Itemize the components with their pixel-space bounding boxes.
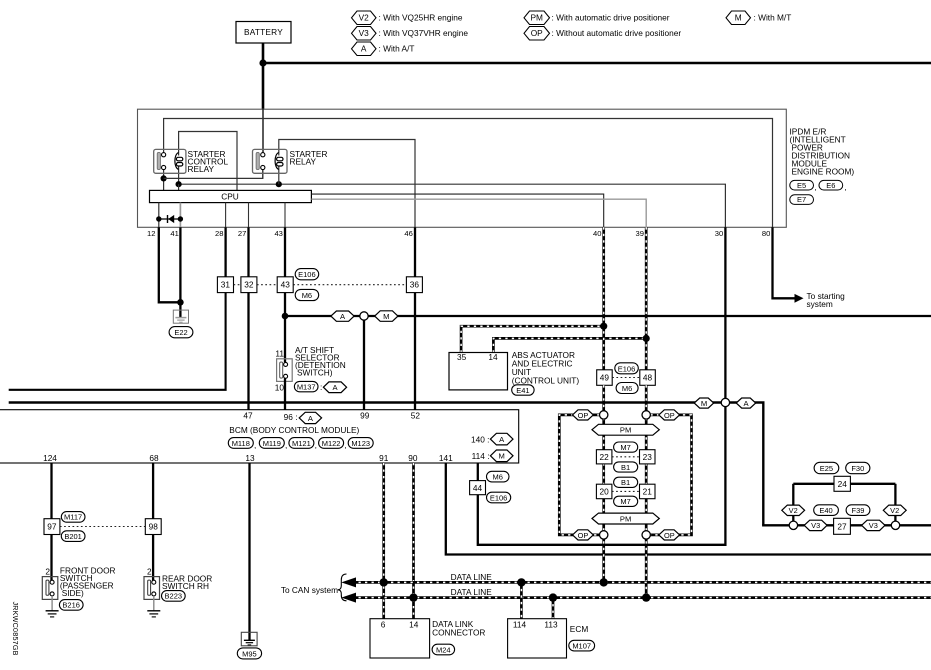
svg-text:49: 49 [600,373,610,383]
svg-text:BCM (BODY CONTROL MODULE): BCM (BODY CONTROL MODULE) [229,425,359,435]
wire pin 28 to left edge [9,293,226,390]
wire battery feed vertical [262,43,265,109]
connector E106 label top [295,269,319,280]
svg-text:PM: PM [620,426,631,435]
node option circle bus [721,398,729,406]
svg-text:99: 99 [360,411,370,421]
svg-text:V2: V2 [359,13,370,23]
ECM box [508,619,567,658]
node CAN1 x ECM114 [517,578,525,586]
hexagon A on row [331,311,354,321]
svg-text:M122: M122 [322,439,341,448]
svg-text:: With M/T: : With M/T [754,12,792,22]
node option circle bottom left [600,531,608,539]
wire pin 80 to starting system [773,227,796,298]
node dashed junction pin40 [600,323,607,330]
svg-text:39: 39 [636,229,644,238]
rear door switch [144,577,160,600]
arrow CAN line 2 [341,593,356,603]
dotted connector link 49-48 [612,377,640,379]
connector F30 label [846,462,870,473]
wire battery bus to right edge [263,62,931,65]
wire ECM pin 114 dashed [520,582,523,618]
svg-text:,: , [814,182,816,192]
svg-text:124: 124 [43,453,57,463]
wire battery feed inside IPDM to starter relay [262,109,264,153]
svg-text:V2: V2 [890,506,899,515]
wire front door switch to ground [51,596,53,611]
label starter control relay [188,149,229,174]
connector box 44 [470,481,486,495]
svg-text:M: M [735,13,742,23]
wire starter control relay coil to CPU [179,132,237,191]
svg-text:A: A [361,44,367,54]
connector M24 [432,644,455,655]
wire pin 39 dashed down [645,227,648,369]
svg-text:90: 90 [408,453,418,463]
legend hexagon PM [524,11,550,25]
BCM box [0,410,519,463]
svg-text:91: 91 [379,453,389,463]
wire contact bottoms link [164,170,263,179]
hexagon V3 right [862,520,885,530]
wire CPU to pin 40 [311,194,603,227]
svg-text:31: 31 [221,280,231,290]
dotted connector link 31-32-43-36 [234,284,407,286]
wire A-M junction down to A/T switch [284,316,286,362]
wire connector 97 to front door switch [50,535,52,582]
svg-text::: : [320,382,322,392]
svg-text:68: 68 [149,453,159,463]
svg-text:M107: M107 [572,641,591,650]
dotted connector link 22-23 [612,456,640,458]
label data link connector [432,619,485,638]
wire option circle to BCM pin 99 [363,320,365,410]
hexagon A at pin 96 [299,412,321,423]
wire ABS pin 35 dashed [461,326,604,352]
hexagon V2 right [883,505,906,515]
label rear door switch [162,573,212,591]
svg-text:32: 32 [244,280,254,290]
node contact bottom junction [161,175,167,181]
connector box 97 [44,519,60,535]
svg-text:RELAY: RELAY [188,164,215,174]
wire BCM pin 114 to connector 44 [477,463,479,481]
hexagon A on bus [736,398,756,408]
legend hexagon V2 [352,11,377,25]
svg-text:SWITCH RH: SWITCH RH [162,581,209,591]
connector M117 label [61,512,85,523]
connector B216 [59,600,83,611]
svg-text:V3: V3 [811,521,820,530]
svg-text:27: 27 [837,521,847,531]
svg-text:22: 22 [599,452,609,462]
svg-text:F39: F39 [852,506,865,515]
A/T shift selector detention switch [277,359,293,382]
svg-text:B1: B1 [621,478,630,487]
connector box 22 [596,450,612,464]
connector box 31 [217,277,233,293]
svg-text:: With A/T: : With A/T [379,43,415,53]
svg-text:23: 23 [643,452,653,462]
node CAN1 x OP column [600,578,608,586]
svg-text:V2: V2 [789,506,798,515]
relay K2 starter relay [253,149,288,173]
svg-text:,: , [344,440,346,450]
battery [236,22,291,44]
node battery junction [259,59,266,66]
svg-text:E6: E6 [826,181,835,190]
node coil bottom junction control relay [176,181,182,187]
svg-text:M6: M6 [302,291,312,300]
label ABS actuator [512,350,580,386]
connector box 20 [596,484,612,499]
svg-text:140 :: 140 : [471,434,489,444]
wire connector 43 to A-M row [284,293,286,316]
node ground junction [177,299,184,306]
wire starter relay contact bottom link [262,170,264,179]
node CAN2 x ECM113 [549,593,557,601]
hexagon A after M137 [323,382,346,393]
svg-text:11: 11 [275,349,284,359]
svg-text:B201: B201 [64,532,82,541]
svg-text:M: M [701,399,707,408]
svg-text:E106: E106 [490,493,508,502]
wire BCM pin 124 to connector 97 [50,463,52,519]
wire BCM pin 141 to right edge [446,463,931,555]
svg-text:OP: OP [531,28,543,38]
OP dashed bypass left [559,415,599,535]
OP dashed bypass right [650,415,691,535]
svg-text:12: 12 [147,229,155,238]
legend hexagon V3 [352,27,377,41]
svg-text:SWITCH): SWITCH) [297,368,333,378]
wire starter control relay contact bottom to CPU [163,170,165,191]
node CAN2 x OP column [642,593,650,601]
connector M118 [228,438,253,449]
wire BCM pin 13 to ground M95 [248,463,250,640]
node CAN1 x pin91 [380,578,388,586]
arrow CAN line 1 [341,577,356,587]
svg-text:2: 2 [45,567,50,577]
svg-text:CPU: CPU [221,192,239,202]
svg-text:F30: F30 [851,464,864,473]
svg-text:20: 20 [599,487,609,497]
svg-text:40: 40 [593,229,601,238]
svg-text:V3: V3 [869,521,878,530]
connector M7 label bottom [614,496,638,506]
svg-text:27: 27 [238,229,246,238]
svg-text:DATA LINE: DATA LINE [451,572,493,582]
svg-text:M7: M7 [620,497,630,506]
connector E40 label [814,505,839,516]
svg-text:,: , [315,440,317,450]
svg-text:M117: M117 [64,513,82,522]
svg-text:M95: M95 [242,649,257,658]
wire pin 43 down to connector 43 [284,227,286,276]
connector M6 label bottom [295,289,319,300]
ground M95 symbol [241,632,257,646]
connector E7 [790,195,814,205]
svg-text:BATTERY: BATTERY [244,27,283,37]
ground rear door switch [147,611,160,617]
hexagon A at pin 140 [490,433,513,445]
connector E106 label for 44 [487,492,511,503]
svg-text:: With VQ25HR engine: : With VQ25HR engine [379,12,463,22]
wire pin 28 down to connector 31 [224,227,226,276]
svg-text:,: , [844,182,846,192]
svg-text:OP: OP [664,411,675,420]
svg-text:14: 14 [409,620,419,630]
wire pin 46 down to connector 36 [414,227,416,276]
connector box 32 [241,277,257,293]
svg-text:E106: E106 [618,364,636,373]
label starter relay [290,149,328,167]
wire V2 branch right vertical [894,484,896,521]
wire V2 branch top row [793,483,895,485]
svg-text:PM: PM [530,13,543,23]
wire CPU to pin 43 [284,203,286,228]
connector B1 label upper [614,462,638,472]
hexagon OP top left [573,410,594,420]
node dashed junction pin39 [643,335,650,342]
svg-text:RELAY: RELAY [290,157,317,167]
svg-text:24: 24 [838,479,848,489]
svg-text:10: 10 [275,382,285,392]
label A/T shift selector [295,345,346,378]
ABS actuator unit box [449,353,508,390]
svg-text:30: 30 [715,229,723,238]
hexagon OP bottom left [573,530,594,540]
svg-text:41: 41 [170,229,178,238]
wire CPU to pin 12 [158,203,160,228]
svg-text:(CONTROL UNIT): (CONTROL UNIT) [512,375,580,385]
svg-text:E41: E41 [516,386,529,395]
wire starter relay coil top to pin 46 [279,140,415,228]
wire starter relay coil bottom [278,165,280,184]
svg-text:113: 113 [544,620,558,630]
svg-text:E25: E25 [820,464,833,473]
connector box 24 [834,476,850,491]
wire BCM pin 91 dashed to data link connector [382,463,385,619]
connector M123 [348,438,373,449]
wire main bus row [9,401,765,403]
CPU box [150,190,312,202]
wire pin 40 dashed column middle [602,385,605,582]
connector M122 [319,438,344,449]
connector F39 label [846,505,870,516]
svg-text:6: 6 [381,620,386,630]
PM banner bottom [592,513,659,524]
svg-text:21: 21 [643,487,653,497]
svg-text:B223: B223 [165,592,183,601]
wire V2 V3 main row [762,524,931,526]
connector M95 [237,648,261,659]
svg-text:CONNECTOR: CONNECTOR [432,628,485,638]
svg-text:E5: E5 [797,181,806,190]
wire pin 40 dashed down [602,227,605,369]
hexagon OP bottom right [659,530,680,540]
connector M6 label for 44 [487,471,510,482]
front door switch [42,577,58,600]
svg-text:44: 44 [473,483,483,493]
connector M7 label top [614,442,638,452]
wire CPU to pin 28 [225,203,227,228]
node option circle bottom right [642,531,650,539]
wire pin 39 dashed column middle [645,385,648,597]
node option circle top right [642,411,650,419]
svg-text:ENGINE ROOM): ENGINE ROOM) [792,167,855,177]
svg-text:PM: PM [620,514,631,523]
svg-text:E106: E106 [298,270,316,279]
data link connector box [370,619,430,658]
node CAN2 x pin90 [409,593,417,601]
svg-text:96 :: 96 : [284,412,298,422]
svg-text:14: 14 [488,352,498,362]
connector E106 label for 49-48 [615,363,639,374]
node option circle A/M [360,312,368,320]
connector box 98 [145,519,161,535]
wire A/T switch to BCM pin 96 [284,378,286,409]
hexagon M at pin 114 [490,450,513,462]
dotted connector link 20-21 [612,490,640,492]
connector E5 [790,180,814,190]
svg-text:OP: OP [578,411,589,420]
svg-text:SIDE): SIDE) [62,588,84,598]
wire pin 12 to ground junction [159,227,181,302]
node option circle V2 right [891,521,899,529]
svg-text:DATA LINE: DATA LINE [451,587,493,597]
svg-text:: With automatic drive positio: : With automatic drive positioner [552,12,670,22]
svg-text:M118: M118 [232,439,250,448]
connector box 48 [640,370,656,386]
CAN line 2 [352,596,931,599]
label front door switch [60,566,116,599]
connector B1 label lower [614,477,638,487]
arrow to starting system [795,294,804,303]
relay K1 starter control relay [154,149,186,173]
CAN line 1 [352,581,931,584]
svg-text:E7: E7 [797,195,806,204]
svg-text:13: 13 [245,453,255,463]
svg-text:To CAN system: To CAN system [281,585,338,595]
svg-text:OP: OP [664,531,675,540]
wire A-M row to right edge [285,315,931,317]
svg-text:47: 47 [243,411,253,421]
connector box 21 [640,484,656,499]
wire BCM pin 68 to connector 98 [152,463,154,519]
svg-text:M119: M119 [263,439,281,448]
svg-text:48: 48 [643,373,653,383]
svg-text:B216: B216 [62,601,80,610]
svg-text:35: 35 [457,352,467,362]
hexagon OP top right [659,410,680,420]
connector M107 [569,640,595,651]
ground front door switch [46,611,59,617]
connector box 27 [834,518,851,534]
wire pin 30 down [724,227,726,398]
legend hexagon OP [524,27,550,41]
node option circle V2 left [789,521,797,529]
wire option circle down to connector 44 path [478,407,726,545]
svg-text:OP: OP [578,531,589,540]
wire rear door switch to ground [153,596,155,611]
dotted connector link 97-98 [60,526,145,528]
svg-text:98: 98 [149,522,159,532]
wire pin 41 to ground E22 [179,227,181,317]
connector M121 [289,438,314,449]
hexagon V2 left [782,505,805,515]
svg-text:43: 43 [274,229,282,238]
svg-text:V3: V3 [359,28,370,38]
wire connector 36 to BCM pin 52 [414,293,416,410]
connector E41 [512,385,534,395]
wire ABS pin 14 dashed [493,338,646,352]
svg-text:M: M [383,312,389,321]
svg-text:M123: M123 [351,439,370,448]
svg-text:43: 43 [281,280,291,290]
svg-text:M137: M137 [297,382,316,391]
IPDM E/R label [790,127,855,177]
legend hexagon M [726,11,751,25]
svg-text:system: system [807,299,833,309]
connector B201 label [61,531,85,542]
svg-text:52: 52 [411,411,421,421]
wire V2 branch left vertical [792,484,794,521]
svg-text:B1: B1 [621,463,630,472]
hexagon M on row [375,311,398,322]
wire starter control relay contact to pin 80 [164,119,773,228]
svg-text:46: 46 [404,229,412,238]
svg-text:141: 141 [439,453,453,463]
PM banner top [592,424,659,435]
hexagon V3 left [804,520,827,530]
svg-text:,: , [254,440,256,450]
hexagon M on bus [694,398,714,408]
svg-text:M6: M6 [622,384,632,393]
connector M6 label for 49-48 [616,383,638,394]
node option circle top left [600,411,608,419]
svg-text:M: M [499,452,505,461]
wire CPU to pin 41 [179,203,181,228]
svg-text:2: 2 [147,567,152,577]
connector E22 [169,327,193,338]
svg-text:M24: M24 [436,645,451,654]
svg-text:28: 28 [215,229,223,238]
svg-text:: With VQ37VHR engine: : With VQ37VHR engine [379,28,469,38]
svg-text:114 :: 114 : [472,451,490,461]
ground E22 symbol [173,310,188,323]
wire BCM pin 90 dashed to data link connector [412,463,415,619]
svg-text:97: 97 [47,522,57,532]
svg-text:ECM: ECM [570,624,589,634]
wire CPU to pin 27 [248,203,250,228]
connector box 49 [597,370,613,386]
connector M137 [294,381,318,391]
wire bus down right side [762,403,764,526]
wire CPU to pin 39 [311,199,646,227]
connector M119 [259,438,284,449]
svg-text:36: 36 [410,280,420,290]
svg-text:E40: E40 [819,506,832,515]
IPDM E/R box [138,109,787,227]
connector E25 label [814,462,839,473]
svg-text:M6: M6 [492,472,502,481]
wire connector 32 to BCM pin 47 [247,293,249,410]
wire connector 98 to rear door switch [152,535,154,582]
svg-text:80: 80 [762,229,770,238]
diode D1 between pins 12 and 41 [156,215,183,223]
